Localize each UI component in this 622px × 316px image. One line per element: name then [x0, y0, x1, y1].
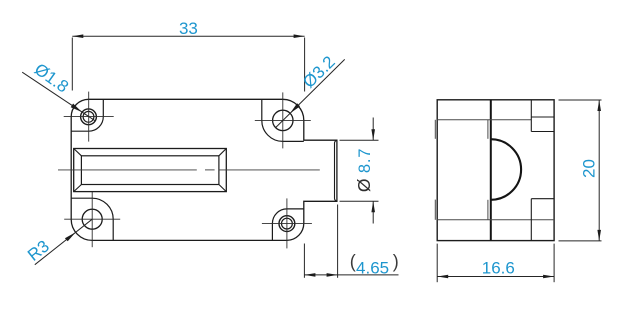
corner ear inner cut top-right	[262, 99, 304, 141]
hole bottom-left Ø3.2	[82, 209, 102, 229]
hole top-left Ø1.8 counterbored ring	[81, 109, 97, 125]
dimension 33: dimension line	[72, 35, 304, 37]
dimension Ø8.7: arrowheads	[371, 129, 375, 140]
corner ear inner cut bottom-left	[71, 198, 113, 240]
svg-text:4.65: 4.65	[356, 258, 389, 277]
side view parting line vertical	[490, 100, 492, 241]
svg-text:33: 33	[179, 19, 198, 38]
dimension (4.65): arrowheads	[304, 273, 315, 277]
side view semicircular notch Ø8.7	[491, 139, 521, 200]
dimension 16.6: dimension line	[437, 276, 554, 278]
slot outer rectangle	[74, 149, 227, 192]
leader R3: line and arrowhead	[35, 219, 92, 265]
corner ear inner cut top-left	[71, 99, 103, 131]
svg-text:16.6: 16.6	[482, 259, 515, 278]
boss chamfer line	[335, 141, 337, 201]
dimension 20: arrowheads	[597, 100, 601, 111]
center lines hole top-left	[64, 92, 114, 142]
side view left edge tab marks	[434, 120, 436, 220]
side view top-right step lines	[531, 100, 554, 132]
dimension Ø8.7: dimension line segments	[372, 118, 374, 224]
leader Ø3.2: line and arrowhead	[276, 59, 345, 127]
dimension Ø8.7: extension lines	[340, 140, 379, 201]
svg-text:): )	[393, 252, 399, 272]
side view parting line tab marks	[487, 120, 489, 220]
side view outer rectangle	[437, 100, 554, 241]
dimension 20: extension lines	[559, 100, 602, 241]
center lines hole top-right	[255, 92, 311, 148]
dimension (4.65): extension lines	[304, 205, 337, 278]
svg-text:Ø 8.7: Ø 8.7	[354, 148, 374, 192]
dimension 20: dimension line	[598, 100, 600, 241]
svg-text:20: 20	[580, 159, 599, 178]
side view lower horizontal line	[437, 219, 554, 221]
dimension (4.65): dimension line with extension under text	[304, 274, 398, 276]
leader Ø1.8: line and arrowhead	[22, 72, 95, 121]
slot inner rectangle	[81, 156, 219, 185]
hole bottom-right Ø1.8 counterbored ring	[279, 216, 295, 232]
dimension 16.6: extension lines	[437, 244, 554, 283]
svg-text:(: (	[350, 252, 356, 272]
dimension 16.6: arrowheads	[437, 275, 448, 279]
slot corner bevels	[74, 149, 227, 192]
dimension 33: arrowheads	[72, 34, 83, 38]
dimension 33: extension lines	[72, 38, 304, 92]
side view upper horizontal line	[437, 119, 531, 121]
plate outline with boss (front view)	[71, 99, 337, 240]
hole top-right Ø3.2	[273, 110, 293, 130]
corner ear inner cut bottom-right	[272, 209, 303, 241]
side view bottom-right step lines	[531, 199, 554, 241]
center lines hole bottom-left	[64, 191, 120, 247]
horizontal centerline (dash-dot)	[58, 169, 320, 171]
center lines hole bottom-right	[262, 198, 312, 248]
